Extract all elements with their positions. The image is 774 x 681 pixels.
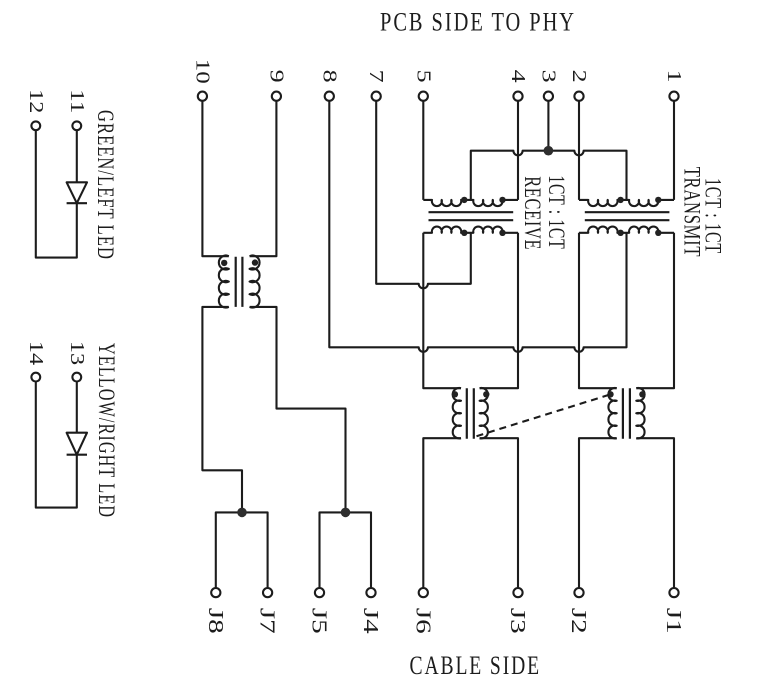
RX primary polarity dot b xyxy=(499,197,505,203)
wire J8/J7 tie bar xyxy=(216,512,268,588)
LED D1 cathode bar xyxy=(67,202,87,204)
LED D2 cathode bar xyxy=(67,454,87,456)
pin 9 terminal xyxy=(272,92,281,101)
J5 terminal xyxy=(315,588,324,597)
J3 terminal xyxy=(513,588,522,597)
wire choke L to J6 xyxy=(423,438,461,588)
dashed coupling line xyxy=(477,394,613,436)
wire pin3 stub xyxy=(547,101,549,151)
svg-text:11: 11 xyxy=(66,89,88,113)
J7 terminal xyxy=(263,588,272,597)
wire LED cathode to pin 12 xyxy=(36,130,77,257)
choke R core xyxy=(623,388,630,439)
TX primary polarity dot b xyxy=(655,197,661,203)
svg-text:14: 14 xyxy=(25,341,47,365)
svg-text:J7: J7 xyxy=(256,608,280,634)
svg-text:2: 2 xyxy=(568,70,590,83)
TX primary polarity dot a xyxy=(617,197,623,203)
T1 secondary polarity dot xyxy=(252,259,258,265)
wire pin7 to RX bottom centre tap (with hop) xyxy=(376,101,471,289)
wire choke R to J2 xyxy=(579,438,617,588)
transformer T1 secondary winding xyxy=(250,256,260,308)
J8 terminal xyxy=(211,588,220,597)
svg-text:5: 5 xyxy=(412,70,434,83)
pin 11 terminal xyxy=(72,121,81,130)
wire T1 secondary bottom to J5/J4 junction xyxy=(250,307,346,513)
wire T1 primary bottom to J8/J7 junction xyxy=(202,307,242,513)
svg-text:J2: J2 xyxy=(567,608,591,634)
pin 13 terminal xyxy=(72,373,81,382)
pin 7 terminal xyxy=(372,92,381,101)
choke L core xyxy=(467,388,474,439)
svg-text:8: 8 xyxy=(318,70,340,83)
svg-text:7: 7 xyxy=(365,70,387,83)
J4 terminal xyxy=(366,588,375,597)
svg-text:J1: J1 xyxy=(662,608,686,634)
J2 terminal xyxy=(574,588,583,597)
choke L winding b xyxy=(480,388,488,439)
wire choke L to J3 xyxy=(480,438,518,588)
wire RX secondary left to choke L xyxy=(423,233,461,388)
svg-text:J5: J5 xyxy=(308,608,332,634)
choke L winding a xyxy=(453,388,461,439)
svg-text:1CT : 1CT: 1CT : 1CT xyxy=(544,175,569,249)
wire choke R to J1 xyxy=(636,438,674,588)
choke R winding a xyxy=(608,388,616,439)
svg-text:J8: J8 xyxy=(204,608,228,634)
RX secondary polarity dot a xyxy=(461,230,467,236)
wire pin11 to LED anode xyxy=(76,130,78,182)
TX secondary polarity dot b xyxy=(655,230,661,236)
pin 5 terminal xyxy=(419,92,428,101)
pin 4 terminal xyxy=(513,92,522,101)
svg-text:1: 1 xyxy=(663,70,685,83)
choke R polarity dot a xyxy=(607,391,613,397)
transformer TX secondary winding xyxy=(579,227,674,233)
transformer TX core xyxy=(585,212,670,220)
choke R polarity dot b xyxy=(639,391,645,397)
svg-text:12: 12 xyxy=(25,89,47,113)
RX secondary polarity dot b xyxy=(499,230,505,236)
junction dot J8/J7 xyxy=(237,508,247,518)
TX secondary polarity dot a xyxy=(617,230,623,236)
junction dot J5/J4 xyxy=(341,508,351,518)
J6 terminal xyxy=(419,588,428,597)
svg-text:TRANSMIT: TRANSMIT xyxy=(680,167,705,258)
wire pin13 to LED anode xyxy=(76,382,78,433)
wire pin4 to RX primary right xyxy=(517,101,519,200)
transformer TX primary winding xyxy=(579,200,674,206)
svg-text:13: 13 xyxy=(66,341,88,365)
wire pin10 to T1 primary top xyxy=(202,101,228,256)
RX primary polarity dot a xyxy=(461,197,467,203)
wire TX secondary left to choke R xyxy=(579,233,617,388)
wire pin5 to RX primary left xyxy=(422,101,424,200)
J1 terminal xyxy=(669,588,678,597)
pin 3 terminal xyxy=(544,92,553,101)
choke L polarity dot a xyxy=(452,391,458,397)
svg-text:PCB SIDE TO PHY: PCB SIDE TO PHY xyxy=(380,8,576,37)
pin 12 terminal xyxy=(31,121,40,130)
wire pin9 to T1 secondary top xyxy=(250,101,277,256)
junction dot pin3/bus xyxy=(544,146,554,156)
pin 1 terminal xyxy=(669,92,678,101)
transformer RX primary winding xyxy=(423,200,518,206)
pin 14 terminal xyxy=(31,373,40,382)
svg-text:J4: J4 xyxy=(359,608,383,635)
pin 8 terminal xyxy=(325,92,334,101)
LED D1 green/left diode xyxy=(67,182,87,203)
wire pin2 to TX primary left xyxy=(578,101,580,200)
transformer T1 core xyxy=(236,257,243,307)
svg-text:YELLOW/RIGHT LED: YELLOW/RIGHT LED xyxy=(94,343,119,518)
choke L polarity dot b xyxy=(483,391,489,397)
svg-text:GREEN/LEFT LED: GREEN/LEFT LED xyxy=(93,110,118,260)
wire J5/J4 tie bar xyxy=(320,512,372,588)
svg-text:CABLE SIDE: CABLE SIDE xyxy=(410,651,542,680)
wire LED cathode to pin 14 xyxy=(36,382,77,508)
wire pin1 to TX primary right xyxy=(673,101,675,200)
svg-text:10: 10 xyxy=(191,59,213,84)
transformer RX core xyxy=(429,212,514,220)
wire TX secondary right to choke R xyxy=(636,233,674,388)
svg-text:9: 9 xyxy=(265,70,287,83)
svg-text:J6: J6 xyxy=(411,608,435,634)
transformer T1 primary winding xyxy=(219,256,229,308)
wire RX secondary right to choke L xyxy=(480,233,518,388)
svg-text:3: 3 xyxy=(537,70,559,83)
choke R winding b xyxy=(636,388,644,439)
pin 10 terminal xyxy=(198,92,207,101)
svg-text:RECEIVE: RECEIVE xyxy=(520,176,545,250)
svg-text:J3: J3 xyxy=(506,608,530,634)
pin 2 terminal xyxy=(574,92,583,101)
wire pin8 to TX bottom centre tap (with hops) xyxy=(329,101,626,352)
transformer RX secondary winding xyxy=(423,227,518,233)
LED D2 yellow/right diode xyxy=(67,433,87,455)
T1 primary polarity dot xyxy=(221,260,227,266)
wire centre-tap bus RX/TX primaries (with hops) xyxy=(471,151,627,200)
svg-text:4: 4 xyxy=(507,70,529,83)
